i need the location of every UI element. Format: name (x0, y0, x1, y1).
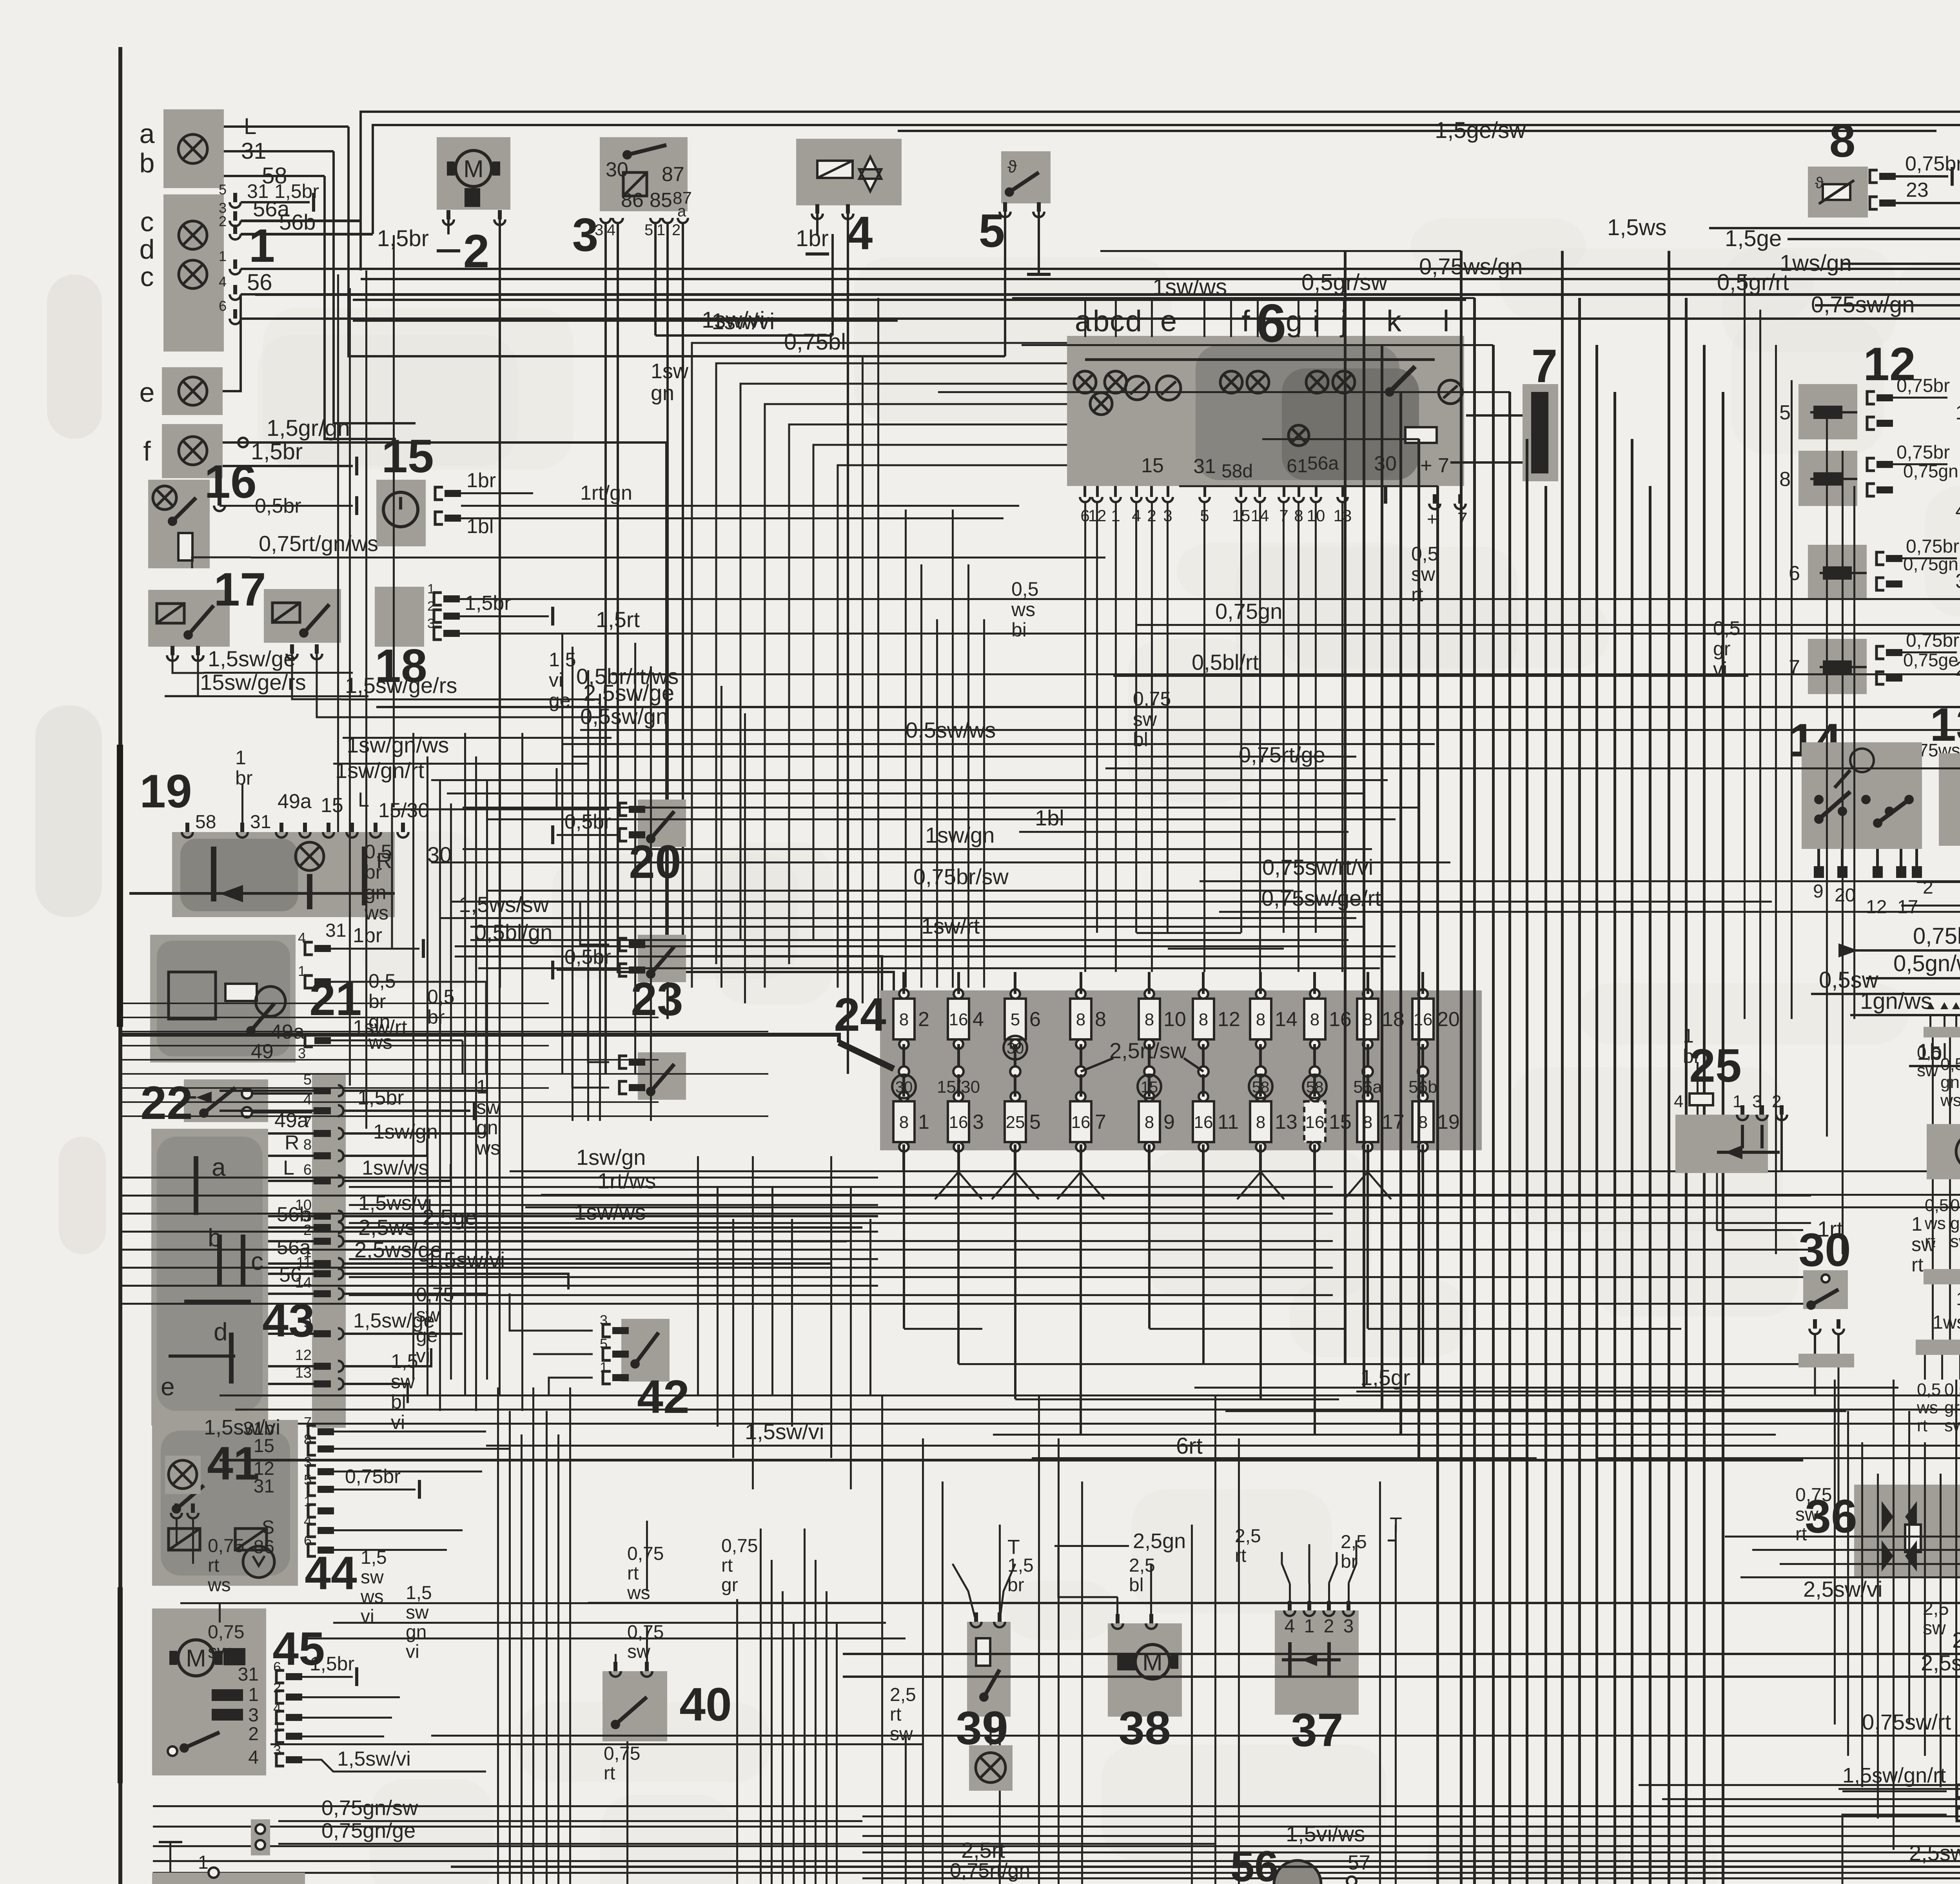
svg-text:1sw/ws: 1sw/ws (362, 1157, 428, 1179)
connector 18 (375, 587, 424, 647)
svg-text:1,5gr: 1,5gr (1360, 1365, 1410, 1390)
svg-text:16: 16 (1305, 1113, 1325, 1132)
svg-text:0,75sw/rt: 0,75sw/rt (1862, 1710, 1951, 1734)
motor 2 (437, 137, 510, 210)
svg-text:8: 8 (1145, 1113, 1154, 1132)
svg-text:rt: rt (208, 1555, 219, 1576)
svg-text:41: 41 (207, 1437, 259, 1490)
svg-text:rt: rt (1795, 1524, 1807, 1545)
svg-text:sw: sw (890, 1724, 913, 1744)
wire 0,75ws/gn (361, 278, 1960, 280)
switch 23b (638, 1052, 686, 1100)
wire pin4 line (241, 293, 1960, 296)
svg-text:49a: 49a (278, 790, 312, 813)
svg-text:2: 2 (273, 1679, 281, 1695)
right low verticals (1834, 1380, 1836, 1724)
svg-text:56a: 56a (277, 1236, 311, 1259)
wire 2,5sw/ws (843, 1675, 1960, 1678)
svg-text:gn: gn (368, 1011, 390, 1033)
svg-text:58: 58 (1252, 1079, 1270, 1096)
switch 39 (967, 1622, 1011, 1717)
svg-text:7: 7 (304, 1414, 312, 1430)
fuse bottom pin fans (935, 1172, 958, 1199)
paper mottle texture (1177, 543, 1421, 599)
svg-text:2,5rt/sw: 2,5rt/sw (1109, 1038, 1187, 1063)
svg-text:0,75: 0,75 (1795, 1485, 1832, 1505)
wire 1,5ws (1709, 227, 1960, 229)
svg-text:6: 6 (1029, 1008, 1041, 1031)
filler horizontals mid (431, 779, 1388, 781)
svg-text:vi: vi (406, 1641, 419, 1662)
svg-text:1sw/gn/rt: 1sw/gn/rt (335, 758, 425, 783)
svg-text:16: 16 (949, 1113, 968, 1132)
wire 56b (241, 233, 373, 236)
component 1 pin block (230, 202, 241, 208)
fuse box 24 circle labels (892, 1075, 916, 1098)
svg-text:1: 1 (304, 1493, 312, 1509)
svg-text:sw: sw (1923, 1618, 1946, 1639)
svg-text:0,75br: 0,75br (1896, 375, 1950, 396)
svg-text:2,5ge: 2,5ge (422, 1205, 477, 1229)
svg-text:11: 11 (1218, 1111, 1239, 1133)
svg-text:rt: rt (627, 1563, 639, 1584)
svg-text:0,75br: 0,75br (345, 1465, 401, 1487)
svg-text:0,75gn/ge: 0,75gn/ge (321, 1819, 416, 1842)
bottom-left filler horizontals (333, 1622, 886, 1624)
bottom left connector (251, 1819, 270, 1855)
svg-text:0,5bl/rt: 0,5bl/rt (1192, 650, 1259, 675)
svg-text:86: 86 (254, 1537, 274, 1558)
fuse box 24 bottom row fuses (893, 1101, 915, 1142)
bottom left gray strip (152, 1873, 305, 1884)
svg-text:ws: ws (1924, 1214, 1946, 1233)
svg-text:8: 8 (899, 1113, 909, 1132)
wire 0,75rt/gn/ws (192, 557, 251, 568)
svg-text:0,75bl: 0,75bl (1913, 923, 1960, 949)
wire 2,5vi (843, 1653, 1960, 1655)
svg-text:0,5gn/ws: 0,5gn/ws (1893, 951, 1960, 976)
svg-text:L: L (244, 114, 256, 139)
svg-text:2: 2 (918, 1008, 929, 1031)
svg-text:2: 2 (219, 213, 227, 229)
svg-text:1: 1 (273, 1719, 281, 1735)
lower long bus wires (220, 1394, 1960, 1396)
svg-text:4: 4 (973, 1008, 984, 1031)
svg-text:8: 8 (304, 1431, 312, 1447)
wire 0,75rt/ge (1105, 767, 1960, 769)
svg-text:ws: ws (207, 1575, 231, 1596)
svg-text:gn: gn (1940, 1073, 1960, 1092)
svg-text:1,5br: 1,5br (377, 226, 429, 251)
cluster 6 lamps (1074, 371, 1096, 393)
right horizontals upper (1725, 1536, 1960, 1538)
svg-text:gr: gr (721, 1575, 738, 1596)
svg-text:sw: sw (406, 1602, 429, 1623)
svg-text:ws: ws (364, 902, 388, 924)
svg-text:1,5sw/vi: 1,5sw/vi (337, 1748, 411, 1770)
svg-text:1,5br: 1,5br (310, 1653, 354, 1675)
svg-text:0,5: 0,5 (1950, 1196, 1960, 1215)
svg-text:1,5br: 1,5br (358, 1086, 404, 1109)
43 right wires (343, 1090, 486, 1092)
instrument cluster 6 (1067, 336, 1464, 486)
bottom left T stub (169, 1842, 171, 1873)
svg-text:58: 58 (1306, 1079, 1324, 1096)
lighting switch 43 body (151, 1129, 268, 1425)
svg-text:0,75rt/gn: 0,75rt/gn (950, 1859, 1030, 1882)
wire 1,5ge (1788, 238, 1960, 240)
svg-text:1: 1 (600, 1359, 608, 1375)
svg-text:15: 15 (1141, 454, 1164, 477)
svg-text:5: 5 (1011, 1010, 1020, 1029)
svg-text:1: 1 (657, 221, 665, 239)
svg-text:1,5ws/sw: 1,5ws/sw (459, 892, 549, 917)
wire 0,5br/rt/ws (612, 673, 1960, 675)
clock 15 (376, 480, 426, 546)
svg-text:0,5: 0,5 (1011, 578, 1039, 600)
svg-text:0,75: 0,75 (627, 1622, 664, 1643)
svg-text:ws: ws (476, 1137, 500, 1159)
svg-text:17: 17 (1897, 897, 1918, 918)
svg-text:bl: bl (1133, 729, 1148, 751)
switch 5 (1001, 151, 1051, 203)
svg-text:58: 58 (195, 812, 216, 832)
svg-text:1: 1 (198, 1852, 209, 1873)
svg-text:0,5: 0,5 (365, 841, 392, 863)
svg-text:0,75rt/gn/ws: 0,75rt/gn/ws (259, 531, 378, 556)
svg-text:1ws: 1ws (1933, 1312, 1960, 1333)
svg-text:6: 6 (304, 1532, 312, 1549)
svg-text:0,5: 0,5 (1940, 1055, 1960, 1074)
valve unit 36 (1854, 1485, 1960, 1578)
svg-text:5: 5 (1779, 401, 1791, 424)
svg-text:5: 5 (979, 205, 1005, 257)
svg-text:k: k (1387, 305, 1402, 338)
svg-text:g: g (1286, 305, 1302, 338)
svg-text:e: e (161, 1373, 175, 1401)
central trunk bottom bends (1149, 1363, 1345, 1365)
svg-text:5: 5 (1029, 1111, 1041, 1133)
svg-text:1sw/ws: 1sw/ws (574, 1200, 646, 1224)
svg-text:f: f (143, 436, 151, 466)
svg-text:ws: ws (1011, 598, 1035, 620)
fuse box 24 (880, 990, 1482, 1150)
verticals 2124 2163 (831, 234, 834, 335)
svg-text:c: c (1110, 305, 1125, 338)
svg-text:2,5sw/ge: 2,5sw/ge (583, 680, 674, 706)
svg-text:15sw/ge/rs: 15sw/ge/rs (200, 670, 306, 694)
wire L label (224, 125, 348, 128)
svg-text:56: 56 (1230, 1842, 1278, 1884)
svg-text:sw: sw (1795, 1504, 1818, 1525)
wire 2,5sw/ge (376, 706, 1960, 708)
lamp unit 1 f (162, 424, 223, 478)
svg-text:d: d (1125, 305, 1142, 338)
wire 1sw/gn/rt (333, 763, 588, 765)
wire 1rt/ws long (541, 1194, 1960, 1196)
cluster 6 top feeds (1084, 299, 1086, 337)
svg-text:17: 17 (214, 563, 266, 616)
svg-text:+ 7: + 7 (1420, 454, 1449, 477)
svg-text:1sw/ws: 1sw/ws (1152, 274, 1227, 300)
wire 0,75gn (1137, 624, 1960, 626)
svg-text:L: L (358, 789, 369, 811)
svg-text:16: 16 (1194, 1113, 1213, 1132)
resistor 7 (1523, 384, 1558, 481)
svg-text:0,75ge: 0,75ge (1903, 650, 1958, 670)
svg-text:0,5: 0,5 (1917, 1043, 1941, 1062)
svg-text:1: 1 (298, 963, 306, 979)
svg-text:gn: gn (365, 881, 387, 903)
svg-text:1bl: 1bl (1035, 805, 1064, 830)
svg-text:30: 30 (606, 158, 628, 181)
44 pins (308, 1425, 316, 1438)
svg-text:8: 8 (1256, 1010, 1265, 1029)
svg-text:0,5: 0,5 (1917, 1380, 1941, 1399)
wire 0,75gn/ge (278, 1843, 1215, 1845)
svg-text:15: 15 (1141, 1079, 1158, 1096)
svg-text:1: 1 (427, 582, 435, 597)
wire 1,5sw/vi long (486, 1445, 1960, 1447)
svg-text:0,75gn/sw: 0,75gn/sw (321, 1796, 418, 1820)
svg-text:1br: 1br (796, 226, 829, 251)
svg-text:6: 6 (219, 298, 227, 314)
svg-text:3: 3 (973, 1111, 984, 1133)
wire 0,5bl/rt (1113, 675, 1748, 677)
svg-text:61: 61 (1287, 456, 1307, 477)
svg-text:2,5: 2,5 (1235, 1526, 1261, 1547)
wire top bus L (361, 112, 1960, 270)
19 pins (182, 832, 193, 838)
relay 17b (264, 589, 341, 643)
svg-text:38: 38 (1118, 1702, 1171, 1754)
lamp unit 1 a/b (163, 109, 224, 188)
svg-text:40: 40 (679, 1678, 731, 1731)
left-mid extra verticals (634, 643, 636, 1074)
svg-text:57: 57 (1348, 1851, 1370, 1874)
wire 2,5sw/rt (451, 1866, 1960, 1868)
wire 0,5gn/ws (1866, 977, 1960, 979)
blower motor 45 (152, 1608, 266, 1775)
lamp unit 1 e (162, 367, 223, 415)
wire 1sw/vi (655, 334, 833, 337)
svg-text:5: 5 (600, 1336, 608, 1352)
svg-text:0,5sw/ws: 0,5sw/ws (906, 718, 996, 742)
svg-text:rt: rt (890, 1704, 901, 1725)
svg-text:0,5: 0,5 (1411, 543, 1439, 565)
svg-text:0,75: 0,75 (721, 1536, 758, 1556)
svg-text:d: d (214, 1318, 228, 1346)
svg-text:1: 1 (249, 219, 275, 272)
switch 42 (621, 1319, 670, 1382)
svg-text:56b: 56b (1408, 1077, 1437, 1097)
svg-text:2,5rt: 2,5rt (961, 1838, 1005, 1862)
wire 31-1,5br (241, 201, 310, 203)
svg-text:sw: sw (476, 1096, 501, 1118)
wire 1ws/gn (1842, 263, 1960, 265)
svg-text:19: 19 (140, 765, 192, 818)
svg-text:0,5: 0,5 (1713, 617, 1740, 639)
svg-text:br: br (368, 990, 386, 1012)
svg-text:4: 4 (298, 930, 306, 946)
svg-text:a: a (1075, 305, 1092, 338)
svg-text:M: M (186, 1645, 206, 1672)
sensor 8 (1808, 167, 1868, 218)
fuse strip vertical feeds below (903, 1172, 905, 1329)
svg-text:T: T (1390, 1514, 1402, 1536)
svg-text:1,5: 1,5 (361, 1547, 387, 1568)
wire 1,5ge/sw (898, 130, 1936, 132)
wire 1bl (1019, 831, 1348, 833)
svg-text:30: 30 (895, 1079, 913, 1096)
wire 56a (241, 219, 361, 222)
svg-text:15: 15 (321, 794, 343, 817)
svg-text:0,75br: 0,75br (1896, 442, 1950, 463)
feed arrow into fuse 1 (839, 1043, 894, 1069)
svg-text:4: 4 (607, 221, 615, 239)
svg-text:85: 85 (650, 189, 672, 212)
svg-text:7: 7 (1532, 340, 1558, 392)
21 pins (305, 942, 313, 955)
left trunk verticals near 21 (412, 733, 414, 1380)
bundle left of cluster 6 (692, 343, 1067, 988)
svg-text:30: 30 (1007, 1040, 1024, 1057)
svg-text:bi: bi (1011, 619, 1027, 641)
svg-text:f: f (1241, 305, 1250, 338)
cluster 6 switch arm k (1390, 366, 1415, 392)
wire 1sw/vi left (353, 319, 898, 322)
svg-text:16: 16 (204, 455, 256, 508)
wires 17 (167, 655, 178, 661)
26 connector mid (1924, 1269, 1960, 1284)
svg-text:4: 4 (248, 1747, 259, 1768)
svg-text:1br: 1br (353, 924, 382, 947)
svg-text:2,5gn: 2,5gn (1133, 1529, 1186, 1553)
svg-text:18: 18 (375, 640, 427, 692)
wire T 2,5rt (1388, 1539, 1396, 1541)
svg-text:3: 3 (248, 1705, 259, 1726)
svg-text:31: 31 (1193, 455, 1216, 478)
wire 0,75sw/rt/vi (1200, 880, 1960, 882)
svg-text:1: 1 (219, 248, 227, 264)
svg-text:2,5: 2,5 (1923, 1598, 1949, 1619)
svg-text:1: 1 (1304, 1616, 1315, 1637)
svg-text:4: 4 (273, 1700, 281, 1716)
wire 0,5gr/sw (255, 294, 1960, 296)
svg-text:2,5sw/rt: 2,5sw/rt (1909, 1840, 1960, 1865)
border dark sections (117, 745, 123, 1027)
svg-text:e: e (140, 377, 155, 408)
wire 56 (241, 268, 1960, 270)
svg-text:8: 8 (1310, 1010, 1319, 1029)
svg-text:15: 15 (381, 430, 434, 482)
svg-text:R: R (285, 1131, 299, 1154)
svg-text:31: 31 (325, 920, 346, 941)
svg-text:l: l (1443, 305, 1450, 338)
svg-text:vi: vi (549, 669, 563, 691)
wire 1sw/ws (353, 299, 1466, 301)
svg-text:2,5: 2,5 (890, 1685, 916, 1705)
connector strip 43 (312, 1075, 346, 1428)
svg-text:1gn/ws: 1gn/ws (1860, 988, 1932, 1014)
left upper verticals (337, 274, 339, 832)
cluster 6 top bus (1085, 358, 1435, 361)
wire 58 (224, 175, 325, 177)
svg-text:7: 7 (1095, 1111, 1106, 1133)
wire 1sw/ws long (525, 1206, 1960, 1208)
svg-text:31: 31 (238, 1664, 259, 1685)
relay 17a (148, 590, 230, 647)
svg-text:1,5br: 1,5br (251, 439, 303, 464)
svg-text:8: 8 (1829, 114, 1856, 167)
svg-text:8: 8 (1779, 468, 1791, 491)
wire 1sw/gn long (510, 1170, 1960, 1172)
svg-text:br: br (1341, 1551, 1357, 1572)
horizontal mesh upper left (122, 1003, 549, 1004)
regulator 21 (150, 935, 296, 1063)
svg-text:rt: rt (1411, 584, 1423, 606)
svg-text:bl: bl (1129, 1575, 1143, 1596)
svg-text:1sw/gn/ws: 1sw/gn/ws (347, 733, 449, 757)
svg-text:4: 4 (303, 1092, 312, 1108)
wire 1,5ws/sw (439, 917, 1356, 919)
svg-text:1: 1 (476, 1076, 487, 1098)
svg-text:vi: vi (391, 1411, 405, 1433)
svg-text:3: 3 (304, 1454, 312, 1470)
svg-text:2: 2 (463, 225, 490, 277)
svg-text:e: e (1160, 305, 1177, 338)
horizontal mesh below fuse box (122, 1177, 878, 1179)
wire 31 (224, 150, 334, 152)
45 pins (276, 1670, 284, 1683)
wire 1,5sw/gn/rt (1838, 1788, 1960, 1790)
svg-text:0,5bl/gn: 0,5bl/gn (474, 920, 552, 945)
svg-text:sw: sw (208, 1641, 231, 1662)
svg-text:c: c (140, 261, 154, 292)
svg-text:16: 16 (1329, 1008, 1352, 1031)
switch 14 pins (1817, 849, 1820, 866)
lamp unit 1 c/d (163, 194, 224, 352)
svg-text:87: 87 (662, 163, 684, 186)
svg-text:1,5sw/ge: 1,5sw/ge (208, 646, 296, 671)
svg-text:c: c (251, 1247, 263, 1275)
svg-text:1,5ws: 1,5ws (1607, 215, 1667, 240)
svg-text:1: 1 (918, 1111, 929, 1133)
svg-text:4: 4 (1285, 1616, 1295, 1637)
fuse box top stems (902, 972, 905, 994)
wire 1bl right (1909, 1065, 1960, 1067)
svg-text:4: 4 (847, 207, 873, 259)
43 left wires (220, 1090, 314, 1092)
svg-text:1sw: 1sw (651, 359, 689, 383)
switch unit 37 (1275, 1610, 1359, 1715)
margin smudges (47, 274, 102, 439)
svg-text:br: br (235, 767, 252, 789)
switch 22 (184, 1079, 268, 1122)
svg-text:8: 8 (303, 1137, 312, 1153)
svg-text:L: L (283, 1157, 294, 1179)
svg-text:49a: 49a (274, 1109, 309, 1132)
wire 1sw/rt (470, 939, 1348, 941)
svg-text:1,5ge/sw: 1,5ge/sw (1435, 118, 1526, 143)
wire 1,5gr/gn (223, 441, 666, 444)
svg-text:8: 8 (1076, 1010, 1085, 1029)
svg-text:3: 3 (298, 1045, 306, 1061)
svg-text:3: 3 (600, 1312, 608, 1328)
svg-text:1,5ge: 1,5ge (1725, 226, 1782, 251)
svg-text:42: 42 (637, 1371, 689, 1423)
svg-text:20: 20 (1835, 885, 1855, 906)
